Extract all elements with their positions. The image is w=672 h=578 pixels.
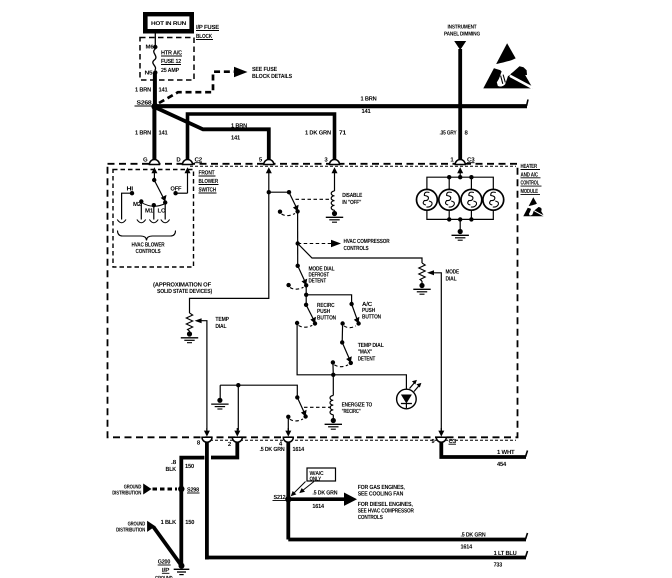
svg-text:S298: S298 xyxy=(187,487,200,494)
svg-text:454: 454 xyxy=(497,461,507,468)
LED indicator xyxy=(397,380,422,409)
svg-text:.5 DK GRN: .5 DK GRN xyxy=(260,446,285,453)
svg-text:1 BRN: 1 BRN xyxy=(135,130,151,137)
node INSTRUMENT PANEL DIMMING xyxy=(444,25,480,51)
pin M6 xyxy=(146,45,158,51)
svg-text:DEFROST: DEFROST xyxy=(309,272,330,279)
svg-text:BLOCK DETAILS: BLOCK DETAILS xyxy=(252,73,292,80)
svg-text:FOR GAS ENGINES,: FOR GAS ENGINES, xyxy=(358,484,405,491)
svg-text:AND A/C: AND A/C xyxy=(521,171,539,178)
wire S268 branch to connector 5, 1 BRN 141 xyxy=(156,108,269,160)
wire recirc contact down to rail xyxy=(297,323,333,375)
svg-text:FUSE 12: FUSE 12 xyxy=(161,58,182,65)
svg-text:TEMP DIAL: TEMP DIAL xyxy=(358,342,384,349)
svg-text:DISTRIBUTION: DISTRIBUTION xyxy=(112,491,141,497)
resistor MODE DIAL xyxy=(419,263,425,286)
svg-text:DETENT: DETENT xyxy=(358,355,376,362)
connector G xyxy=(143,157,159,181)
junction to connector 2 xyxy=(236,383,240,431)
heater and A/C control module box xyxy=(108,164,518,440)
wire connector 8 down to 1 LT BLU xyxy=(205,442,209,559)
svg-text:SWITCH: SWITCH xyxy=(199,187,217,194)
terminal HI xyxy=(117,186,134,223)
wire .35 GRY 8 xyxy=(440,49,469,159)
svg-text:1 WHT: 1 WHT xyxy=(497,449,515,456)
svg-text:RECIRC: RECIRC xyxy=(317,302,335,309)
ground under energize coil xyxy=(325,418,342,429)
module label HEATER AND A/C CONTROL MODULE xyxy=(521,163,542,195)
connector 1 C3 xyxy=(450,157,475,178)
svg-text:INSTRUMENT: INSTRUMENT xyxy=(448,25,478,31)
svg-text:DIAL: DIAL xyxy=(446,275,457,282)
ground G200 I/P xyxy=(155,559,189,578)
svg-text:HTR A/C: HTR A/C xyxy=(161,50,183,57)
brace HVAC BLOWER CONTROLS xyxy=(118,231,176,256)
svg-text:M1: M1 xyxy=(145,208,154,215)
lamp 1 xyxy=(417,189,438,210)
power box HOT IN RUN xyxy=(143,12,194,34)
svg-text:"RECIRC": "RECIRC" xyxy=(342,408,361,415)
box W/A/C ONLY xyxy=(291,468,336,496)
svg-text:MODULE: MODULE xyxy=(521,188,539,195)
svg-text:.5 DK GRN: .5 DK GRN xyxy=(461,532,486,539)
svg-text:1 LT BLU: 1 LT BLU xyxy=(494,550,517,557)
pin N5 xyxy=(145,70,158,76)
ground distribution arrow to S298 xyxy=(112,484,177,497)
label .5 DK GRN 1614 at connector 4 xyxy=(260,446,305,453)
svg-text:2: 2 xyxy=(228,441,232,448)
svg-text:CONTROLS: CONTROLS xyxy=(136,248,161,255)
svg-text:BLK: BLK xyxy=(166,466,177,473)
svg-text:HOT IN RUN: HOT IN RUN xyxy=(151,21,186,27)
lamp cluster buses xyxy=(427,175,493,222)
svg-text:CONTROL: CONTROL xyxy=(521,180,540,187)
resistor TEMP DIAL xyxy=(186,313,192,334)
svg-text:A/C: A/C xyxy=(362,301,373,308)
svg-text:FRONT: FRONT xyxy=(199,170,215,177)
splice S298 xyxy=(178,486,200,494)
wire connector 2 jog left xyxy=(211,442,237,457)
svg-text:1 DK GRN: 1 DK GRN xyxy=(305,130,331,137)
svg-text:S212: S212 xyxy=(274,494,287,501)
esd hand wedge xyxy=(511,66,527,75)
svg-text:PUSH: PUSH xyxy=(362,307,375,314)
junction / dashed arrow HVAC COMPRESSOR CONTROLS xyxy=(296,238,391,252)
temp dial wiper arrow, wire to connector 8 xyxy=(195,316,229,431)
svg-text:ENERGIZE TO: ENERGIZE TO xyxy=(342,402,373,409)
svg-text:HEATER: HEATER xyxy=(521,163,538,170)
coil ENERGIZE TO "RECIRC" xyxy=(330,375,373,419)
svg-text:M6: M6 xyxy=(146,45,154,51)
terminal M1 xyxy=(145,203,158,223)
svg-text:3: 3 xyxy=(324,157,328,164)
svg-text:TEMP: TEMP xyxy=(215,316,229,323)
svg-text:71: 71 xyxy=(339,130,347,137)
svg-text:D: D xyxy=(176,157,181,164)
switch MODE DIAL DEFROST DETENT xyxy=(286,264,335,290)
connector 5 xyxy=(259,157,274,193)
svg-text:5: 5 xyxy=(259,157,263,164)
svg-text:G: G xyxy=(143,157,148,164)
svg-text:141: 141 xyxy=(362,108,372,115)
svg-text:.5 DK GRN: .5 DK GRN xyxy=(312,489,337,496)
svg-text:SEE COOLING FAN: SEE COOLING FAN xyxy=(358,490,404,497)
svg-text:ONLY: ONLY xyxy=(310,476,322,482)
svg-text:PUSH: PUSH xyxy=(317,308,330,315)
svg-text:150: 150 xyxy=(185,463,195,470)
svg-text:IN "OFF": IN "OFF" xyxy=(342,199,361,206)
front blower switch box xyxy=(113,170,219,268)
wire 1 LT BLU 733 xyxy=(205,550,528,569)
svg-text:1 BRN: 1 BRN xyxy=(135,87,151,94)
svg-text:DIAL: DIAL xyxy=(215,323,226,330)
svg-text:FOR DIESEL ENGINES,: FOR DIESEL ENGINES, xyxy=(358,501,413,508)
svg-text:141: 141 xyxy=(231,135,241,142)
svg-text:25 AMP: 25 AMP xyxy=(161,67,179,74)
svg-text:.8: .8 xyxy=(171,459,177,466)
lamp 2 xyxy=(439,189,460,210)
svg-text:DISABLE: DISABLE xyxy=(342,192,362,199)
coil DISABLE IN "OFF" xyxy=(331,191,362,214)
svg-text:G200: G200 xyxy=(158,559,171,566)
connector 2 (bottom) xyxy=(228,428,242,448)
svg-text:HVAC BLOWER: HVAC BLOWER xyxy=(132,242,166,249)
switch at connector 4 xyxy=(220,385,331,430)
svg-text:1: 1 xyxy=(450,157,454,164)
svg-text:BLOWER: BLOWER xyxy=(199,178,219,185)
terminal M2 xyxy=(133,199,146,222)
svg-text:1614: 1614 xyxy=(312,503,324,510)
wire junction to mode dial xyxy=(298,244,422,264)
fuse HTR A/C FUSE 12 25 AMP xyxy=(153,49,183,74)
terminal LO xyxy=(158,200,170,222)
ground distribution arrow 1 BLK 150 xyxy=(116,519,195,565)
splice S268 xyxy=(135,100,159,111)
wire from HOT IN RUN into fuse block xyxy=(154,34,156,48)
wire connector 5 down and across to temp dial xyxy=(190,190,271,313)
svg-text:8: 8 xyxy=(197,440,201,447)
svg-text:(APPROXIMATION OF: (APPROXIMATION OF xyxy=(153,282,212,289)
splice S212 and arrow FOR GAS/DIESEL xyxy=(273,484,415,521)
wire connector 4 down to S212 xyxy=(286,442,290,539)
svg-text:N5: N5 xyxy=(145,71,153,77)
switch TEMP DIAL "MAX" DETENT xyxy=(331,324,384,367)
ground under mode dial xyxy=(413,283,430,294)
rail to LED xyxy=(331,362,406,389)
svg-text:"MAX": "MAX" xyxy=(358,349,373,356)
blower switch pivot xyxy=(152,178,156,182)
note (APPROXIMATION OF SOLID STATE DEVICES) xyxy=(153,282,212,296)
esd slash xyxy=(509,75,533,90)
svg-text:8: 8 xyxy=(465,130,469,137)
connector D C2 xyxy=(176,157,203,194)
wire 1 WHT 454 xyxy=(441,442,527,468)
blower switch arm (to LO) xyxy=(154,180,166,202)
svg-text:DETENT: DETENT xyxy=(309,278,327,285)
wire defrost contact down, junction to recirc rail xyxy=(304,285,352,305)
wire .5 DK GRN 1614 (bottom) xyxy=(288,532,527,551)
svg-text:9: 9 xyxy=(431,438,435,445)
I/P fuse block (dashed box) xyxy=(140,24,219,80)
wire disable switch down to junction xyxy=(297,211,299,265)
svg-text:733: 733 xyxy=(494,562,503,569)
svg-text:S268: S268 xyxy=(137,100,153,107)
svg-text:SEE FUSE: SEE FUSE xyxy=(252,66,277,73)
wire fuse to S268, 1 BRN 141 xyxy=(135,73,168,107)
ground under lamps xyxy=(452,219,469,240)
wire main bus 1 BRN 141 to right xyxy=(155,96,528,115)
svg-text:PANEL DIMMING: PANEL DIMMING xyxy=(444,32,480,38)
lamp 4 xyxy=(483,189,504,210)
svg-text:I/P FUSE: I/P FUSE xyxy=(196,24,219,31)
connector 9 C3 (bottom) xyxy=(431,428,457,445)
svg-text:141: 141 xyxy=(159,130,169,137)
svg-text:DISTRIBUTION: DISTRIBUTION xyxy=(116,528,145,534)
ESD warning symbol (large) xyxy=(483,43,533,89)
svg-text:CONTROLS: CONTROLS xyxy=(358,514,383,521)
connector 8 (bottom) xyxy=(197,428,212,447)
terminal OFF wire to connector D xyxy=(170,186,187,196)
dashed arrow SEE FUSE BLOCK DETAILS xyxy=(159,66,292,103)
wire D-to-3 bus, 1 DK GRN 71 xyxy=(188,114,347,159)
svg-text:1614: 1614 xyxy=(461,544,473,551)
svg-text:MODE DIAL: MODE DIAL xyxy=(309,265,335,272)
switch RECIRC PUSH BUTTON xyxy=(295,302,336,327)
switch A/C PUSH BUTTON xyxy=(340,301,381,328)
wire S268 down to connector G, 1 BRN 141 xyxy=(135,107,168,160)
svg-text:141: 141 xyxy=(159,87,169,94)
svg-text:CONTROLS: CONTROLS xyxy=(344,245,369,252)
svg-text:.35 GRY: .35 GRY xyxy=(440,130,457,137)
ground under disable coil xyxy=(326,211,343,222)
ESD warning symbol (small) xyxy=(523,197,544,216)
svg-text:I/P: I/P xyxy=(162,567,169,574)
svg-text:1614: 1614 xyxy=(293,446,305,453)
svg-text:SEE HVAC COMPRESSOR: SEE HVAC COMPRESSOR xyxy=(358,508,415,515)
svg-text:BLOCK: BLOCK xyxy=(196,33,213,40)
svg-text:1 BRN: 1 BRN xyxy=(361,96,377,103)
disable switch xyxy=(269,190,330,216)
connector 4 (bottom) xyxy=(279,428,293,448)
ground on rail at x220 xyxy=(211,385,228,409)
svg-text:MODE: MODE xyxy=(446,269,460,276)
svg-text:150: 150 xyxy=(185,519,195,526)
mode dial wiper arrow and label, wire to connector 9 xyxy=(427,269,459,431)
rotary contact arc xyxy=(141,203,165,207)
lamp 3 xyxy=(461,189,482,210)
wire ground branch .8 BLK 150 xyxy=(166,458,205,566)
svg-text:1 BLK: 1 BLK xyxy=(161,519,177,526)
svg-text:SOLID STATE DEVICES): SOLID STATE DEVICES) xyxy=(157,288,212,295)
svg-text:1 BRN: 1 BRN xyxy=(231,123,247,130)
svg-text:BUTTON: BUTTON xyxy=(362,313,381,320)
connector 3 xyxy=(324,157,339,192)
svg-text:BUTTON: BUTTON xyxy=(317,314,336,321)
ground under temp dial xyxy=(181,331,198,342)
svg-text:HVAC COMPRESSOR: HVAC COMPRESSOR xyxy=(344,238,391,245)
